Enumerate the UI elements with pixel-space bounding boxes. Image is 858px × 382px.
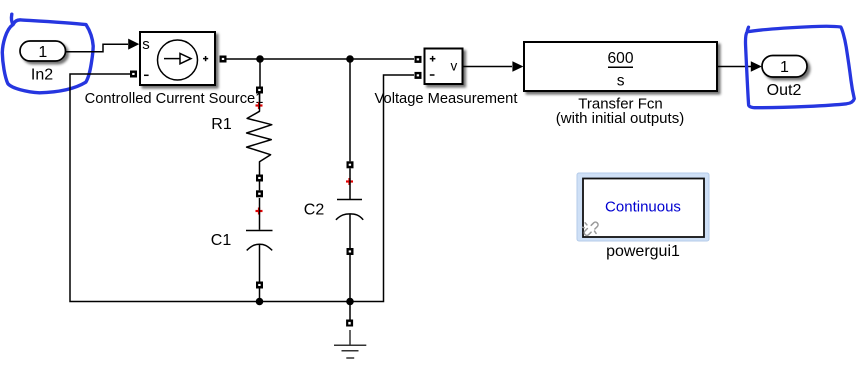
output port square of current source: [220, 56, 227, 63]
svg-text:1: 1: [780, 59, 789, 76]
wire In2 to Controlled Current Source1 s input: [66, 39, 139, 52]
input port In2: [20, 41, 66, 61]
svg-text:Controlled Current Source1: Controlled Current Source1: [85, 91, 264, 107]
wire Transfer Fcn output to Out2: [718, 61, 762, 72]
transfer fcn block: [524, 42, 717, 91]
wire voltage measurement v output to Transfer Fcn: [463, 61, 523, 72]
polarity mark + of R1: [256, 102, 263, 109]
resistor R1: [247, 94, 272, 175]
junction node bottom of C2 / ground: [346, 298, 354, 306]
input port square plus of voltage measurement: [415, 56, 422, 63]
svg-text:s: s: [617, 72, 625, 89]
current source circle symbol: [158, 40, 198, 80]
polarity mark + of C1: [256, 208, 263, 215]
wire C2 bottom port to bottom rail: [349, 255, 351, 302]
output port Out2: [762, 56, 807, 78]
svg-text:C2: C2: [304, 202, 325, 219]
svg-text:C1: C1: [211, 232, 232, 249]
ground symbol: [334, 330, 366, 358]
pin label + of voltage measurement: [430, 56, 436, 62]
port square C2 top: [347, 161, 354, 168]
junction node top of R1: [256, 55, 264, 63]
voltage measurement block: [425, 49, 463, 85]
port square C1 bottom: [256, 282, 263, 289]
powergui block powergui1: [577, 173, 709, 241]
fraction bar: [608, 66, 633, 68]
pin label +: [203, 56, 208, 61]
port square R1 top: [256, 87, 263, 94]
svg-text:(with initial outputs): (with initial outputs): [556, 110, 684, 127]
svg-text:R1: R1: [211, 116, 232, 133]
svg-text:v: v: [451, 58, 458, 73]
capacitor C2: [336, 168, 363, 248]
wire R1 bottom port to C1 top port: [259, 182, 261, 191]
input port square minus of voltage measurement: [415, 72, 422, 79]
port square of ground: [346, 320, 353, 327]
port square C2 bottom: [347, 248, 354, 255]
blue annotation loop around Out2: [745, 26, 854, 107]
wire junction down to C2 top port: [349, 59, 351, 161]
signal input port square (minus) of current source: [130, 71, 137, 78]
wire ground junction down to ground port: [349, 302, 351, 320]
junction node top of C2: [346, 55, 354, 63]
capacitor C1: [246, 198, 273, 282]
svg-text:1: 1: [38, 44, 47, 61]
pin label - of voltage measurement: [430, 74, 435, 76]
svg-text:Continuous: Continuous: [605, 199, 681, 216]
polarity mark + of C2: [346, 178, 353, 185]
blue annotation loop around In2: [2, 14, 93, 93]
wire top rail: source output to Voltage Measurement plus: [227, 58, 415, 60]
svg-text:Out2: Out2: [767, 82, 802, 99]
wire source minus to bottom rail and up to Voltage Measurement minus: [70, 74, 414, 302]
pin label -: [144, 74, 149, 76]
port square R1 bottom: [256, 175, 263, 182]
svg-text:powergui1: powergui1: [606, 243, 680, 260]
port square C1 top: [256, 190, 263, 197]
svg-text:Voltage Measurement: Voltage Measurement: [375, 91, 518, 107]
controlled current source block: [140, 32, 215, 85]
svg-text:In2: In2: [31, 67, 53, 84]
broken link icon: [583, 221, 600, 236]
wire C1 bottom port to bottom rail: [259, 289, 261, 302]
svg-text:s: s: [142, 36, 150, 53]
svg-text:600: 600: [607, 50, 633, 67]
junction node bottom of C1: [256, 298, 264, 306]
wire junction down to R1 top port: [259, 59, 261, 87]
